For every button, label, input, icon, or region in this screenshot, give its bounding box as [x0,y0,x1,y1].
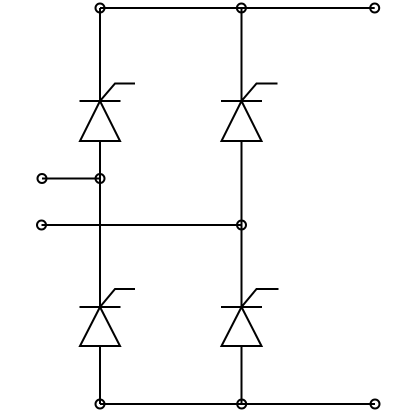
wire left column bottom segment [99,346,101,404]
cathode bar [221,306,262,308]
cathode bar [221,100,262,102]
node A (left column / AC1 junction) [96,174,105,183]
thyristor Q4 (bottom-right) [221,289,279,346]
terminal top-middle [237,4,246,13]
gate [242,84,278,102]
terminal bottom-middle [237,400,246,409]
thyristor Q3 (bottom-left) [80,289,136,346]
terminal top-left [96,4,105,13]
node B (right column / AC2 junction) [237,221,246,230]
thyristor Q2 (top-right) [221,84,278,142]
terminal bottom-right [371,400,380,409]
thyristor Q1 (top-left) [80,84,136,142]
wire right column bottom segment [241,346,243,404]
wire AC input 1 [42,178,100,180]
wire right column middle segment [241,141,243,307]
wire left column middle segment [99,141,101,307]
wire bottom bus [100,403,375,405]
gate [100,84,135,102]
triangle [80,307,120,346]
terminal AC 2 [37,221,46,230]
wire left column top segment [99,8,101,101]
wire top bus [100,7,375,9]
cathode bar [80,306,121,308]
gate [242,289,279,307]
terminal AC 1 [38,174,47,183]
triangle [80,101,120,141]
terminal bottom-left [96,400,105,409]
gate [100,289,135,307]
wire right column top segment [241,8,243,101]
cathode bar [80,100,121,102]
wire AC input 2 [42,224,242,226]
terminal top-right [370,4,379,13]
triangle [222,101,262,141]
triangle [222,307,262,346]
